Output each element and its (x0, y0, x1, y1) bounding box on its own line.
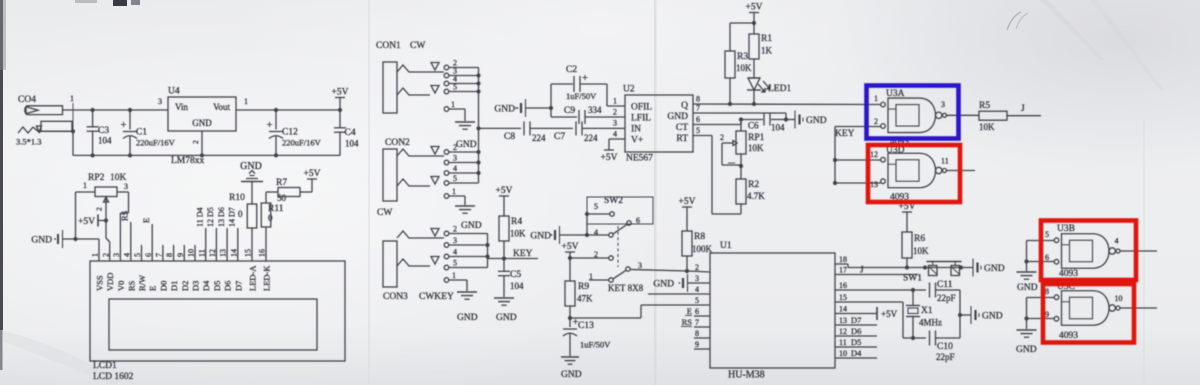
CON1 tip contact (397, 65, 444, 72)
wire U4 Vout to +5V rail (236, 109, 340, 111)
svg-text:3.5*1.3: 3.5*1.3 (16, 137, 42, 147)
svg-text:R5: R5 (979, 101, 990, 111)
led LED1 (748, 77, 760, 79)
wire reset node to U1 pin5 (570, 317, 641, 319)
svg-text:Vin: Vin (175, 102, 188, 112)
power +5V R1 R3 (749, 12, 759, 14)
svg-text:4093: 4093 (1059, 269, 1078, 279)
svg-text:4: 4 (453, 248, 457, 257)
svg-text:14 D7: 14 D7 (228, 207, 237, 227)
lcd module LCD1 LCD 1602 box (90, 261, 345, 361)
ground SW1 (972, 259, 974, 277)
svg-text:1: 1 (451, 100, 455, 109)
wire U3A output to R5 (947, 114, 980, 116)
svg-text:1: 1 (452, 187, 456, 196)
svg-text:1: 1 (452, 271, 456, 280)
power +5V SW2/R9 (565, 251, 575, 253)
svg-text:GND: GND (31, 236, 52, 246)
svg-text:10K: 10K (510, 229, 526, 239)
wire ground rail bottom (73, 154, 340, 156)
svg-text:224: 224 (532, 133, 546, 143)
svg-text:104: 104 (510, 281, 524, 291)
wire R7 to R11 (266, 191, 278, 193)
svg-text:2: 2 (613, 108, 617, 117)
svg-text:2: 2 (720, 133, 724, 142)
svg-text:47K: 47K (577, 294, 593, 304)
svg-text:KEY: KEY (835, 129, 855, 139)
svg-text:6: 6 (144, 253, 153, 257)
nand gate U3C body (1062, 291, 1110, 326)
wire CON2 pin1 to ground (449, 195, 465, 197)
svg-text:13: 13 (870, 180, 878, 189)
nand gate U3D body (888, 153, 936, 188)
capacitor C6 104 (741, 119, 763, 121)
wire SW2 pin2 to +5V (570, 257, 609, 259)
power +5V main (339, 98, 341, 111)
svg-text:1K: 1K (761, 46, 773, 56)
svg-text:GND: GND (457, 313, 478, 323)
capacitor C5 104 (503, 259, 505, 272)
svg-text:LED1: LED1 (768, 84, 791, 94)
svg-text:3: 3 (124, 182, 128, 191)
wire U2 CT pin6 to C6 (693, 124, 741, 126)
wire R11 to LED-K pin16 (265, 227, 267, 261)
wire R6 to SW1 net (906, 258, 908, 268)
svg-text:R2: R2 (748, 180, 759, 190)
svg-text:C8: C8 (504, 132, 515, 142)
svg-text:SW2: SW2 (604, 196, 623, 206)
nand gate U3B output bubble (1109, 248, 1115, 254)
svg-text:V+: V+ (631, 136, 643, 146)
svg-text:R6: R6 (914, 234, 925, 244)
svg-text:4093: 4093 (1059, 331, 1078, 341)
svg-text:CW: CW (377, 208, 392, 218)
svg-text:X1: X1 (921, 306, 933, 316)
nand gate U3A body (888, 98, 936, 133)
wire CO4 sleeve to ground rail (40, 130, 73, 132)
svg-text:C1: C1 (136, 128, 147, 138)
resistor R8 100K (682, 231, 692, 256)
svg-text:HU-M38: HU-M38 (728, 370, 765, 381)
svg-text:C13: C13 (578, 321, 594, 331)
wire R10 to LED-A pin15 (251, 228, 253, 261)
svg-text:C3: C3 (98, 126, 109, 136)
svg-text:4.7K: 4.7K (747, 191, 765, 201)
svg-text:C9: C9 (564, 106, 575, 116)
wire C2 to U2 pin1 (606, 84, 608, 106)
ground CON3 (457, 291, 477, 293)
svg-text:2: 2 (101, 253, 110, 257)
power +5V R6 (902, 211, 912, 213)
svg-text:RP2: RP2 (88, 173, 105, 183)
capacitor C4 104 (338, 108, 342, 112)
highlight red box around U3B (1041, 221, 1136, 281)
svg-text:RP1: RP1 (748, 133, 765, 143)
capacitor C11 22pF (929, 283, 931, 298)
wire CON1-CON2 shared bus (478, 68, 480, 184)
wire RP2 pin3 to LCD V0 (117, 191, 129, 193)
capacitor C13 1uF/50V (569, 318, 571, 327)
paper wrinkle shadows top right (1040, 0, 1105, 60)
svg-text:U4: U4 (168, 87, 180, 97)
svg-text:13 D6: 13 D6 (217, 207, 226, 227)
svg-text:C11: C11 (937, 280, 953, 290)
svg-text:8: 8 (695, 329, 699, 338)
CON1 ring contact (397, 88, 430, 95)
svg-text:GND: GND (1016, 345, 1037, 355)
svg-text:RT: RT (676, 134, 688, 144)
svg-text:VSS: VSS (95, 275, 105, 291)
svg-text:D1: D1 (169, 281, 179, 291)
wire R8 to U1 pin2 net (686, 256, 688, 271)
svg-text:D6: D6 (223, 281, 233, 291)
svg-text:10K: 10K (913, 246, 929, 256)
paper crease vertical left of U2 (654, 0, 657, 385)
capacitor C1 220uF/16V (128, 108, 132, 112)
svg-text:GND: GND (984, 264, 1005, 274)
highlight blue box around U3A (867, 86, 959, 139)
svg-text:13: 13 (219, 249, 228, 257)
svg-text:GND: GND (461, 221, 482, 231)
svg-text:3: 3 (638, 261, 642, 270)
wire GND to LCD VSS pin1 (63, 238, 100, 240)
highlight red box around U3C (1043, 284, 1134, 343)
svg-text:10: 10 (839, 349, 847, 358)
svg-text:V0: V0 (116, 281, 126, 291)
svg-text:6: 6 (695, 307, 699, 316)
svg-text:7: 7 (155, 253, 164, 257)
svg-text:4: 4 (453, 164, 457, 173)
svg-text:9: 9 (176, 253, 185, 257)
svg-text:C10: C10 (937, 342, 953, 352)
svg-text:11: 11 (197, 249, 206, 257)
wire SW2 pins 4,5 to GND (587, 213, 610, 215)
svg-text:OFIL: OFIL (631, 103, 652, 113)
resistor R3 10K (730, 22, 754, 24)
CON3 ring contact (397, 259, 430, 266)
svg-text:16: 16 (258, 249, 267, 257)
wire RP1 to R2 (740, 154, 742, 179)
svg-text:R7: R7 (276, 178, 287, 188)
scan artifact: faint pencil marks top right (1007, 12, 1021, 30)
svg-text:+5V: +5V (881, 309, 898, 319)
svg-text:12 D5: 12 D5 (206, 207, 215, 227)
svg-text:C4: C4 (345, 128, 356, 138)
nand gate U3B input pin 2 circle (1054, 259, 1059, 264)
svg-text:22pF: 22pF (936, 352, 955, 362)
resistor R9 47K (565, 281, 575, 306)
svg-text:1: 1 (70, 94, 74, 103)
wire U3C output (1120, 307, 1157, 309)
svg-text:+5V: +5V (78, 217, 95, 227)
svg-text:5: 5 (453, 259, 457, 268)
capacitor C12 220uF/16V (274, 108, 278, 112)
wire top rail +V (93, 109, 168, 111)
nand gate U3A input pin 1 circle (881, 102, 886, 107)
svg-text:U2: U2 (623, 85, 635, 95)
wire U3B output (1120, 250, 1157, 252)
svg-text:5: 5 (1045, 230, 1049, 239)
svg-text:1: 1 (83, 181, 87, 190)
svg-text:+5V: +5V (304, 169, 321, 179)
svg-text:R9: R9 (578, 282, 589, 292)
svg-text:GND: GND (530, 232, 551, 242)
svg-text:D4: D4 (201, 280, 211, 291)
svg-text:3: 3 (613, 119, 617, 128)
svg-text:3: 3 (453, 154, 457, 163)
svg-text:NE567: NE567 (626, 154, 653, 164)
svg-text:+5V: +5V (332, 88, 349, 98)
svg-text:CON2: CON2 (385, 138, 410, 148)
svg-text:GND: GND (192, 118, 212, 128)
svg-text:12: 12 (208, 249, 217, 257)
lcd LCD1 pin stubs 4-14 (130, 222, 132, 261)
svg-text:GND: GND (494, 105, 515, 115)
svg-text:220uF/16V: 220uF/16V (136, 138, 176, 148)
svg-text:GND: GND (240, 161, 262, 172)
wire SW2 pin3 to U1 pin2 (630, 270, 688, 272)
svg-text:LCD 1602: LCD 1602 (93, 372, 134, 382)
node KEY (503, 241, 505, 259)
svg-text:RS: RS (126, 280, 136, 291)
svg-text:104: 104 (771, 123, 785, 133)
ground U3B (1017, 271, 1037, 273)
svg-text:CO4: CO4 (18, 95, 36, 105)
svg-text:5: 5 (695, 296, 699, 305)
svg-text:E: E (687, 306, 692, 316)
resistor R6 10K (902, 232, 912, 258)
node R9/C13 (569, 306, 571, 318)
ground C13 (561, 356, 579, 358)
nand gate U3D output bubble (936, 167, 942, 173)
svg-text:KEY: KEY (513, 249, 533, 259)
svg-text:104: 104 (345, 139, 359, 149)
SW2 gang dashed link (617, 226, 619, 267)
svg-text:IN: IN (631, 125, 641, 135)
wire CON3 pin1 to ground (449, 279, 467, 281)
nand gate U3D input pin 1 circle (881, 157, 886, 162)
svg-text:+5V: +5V (601, 153, 618, 163)
nand gate U3B body (1062, 234, 1110, 269)
svg-text:+5V: +5V (562, 242, 579, 252)
svg-text:5: 5 (594, 202, 598, 211)
capacitor C10 22pF (929, 331, 931, 346)
wire RP2 pin1 to GND (76, 191, 96, 193)
capacitor C8 224 (479, 127, 522, 129)
nand gate U3A output bubble (936, 112, 942, 118)
switch SW2 enclosure (587, 197, 653, 224)
svg-text:8: 8 (1045, 287, 1049, 296)
svg-text:U3B: U3B (1057, 224, 1075, 234)
svg-text:R8: R8 (694, 232, 705, 242)
svg-text:2: 2 (695, 263, 699, 272)
paper wrinkle bottom left (0, 330, 120, 385)
svg-text:0: 0 (238, 209, 243, 219)
wire U3B inputs to ground (1027, 240, 1055, 242)
svg-text:11 D4: 11 D4 (196, 208, 205, 227)
wire KEY to U3D pin13 (833, 181, 837, 185)
svg-text:GND: GND (496, 313, 517, 323)
svg-text:GND: GND (456, 140, 477, 150)
svg-text:5: 5 (453, 83, 457, 92)
svg-text:C7: C7 (554, 132, 565, 142)
scan artifact: cropped text at top edge (113, 0, 127, 6)
svg-text:C6: C6 (748, 121, 759, 131)
resistor R1 1K (753, 23, 755, 34)
wire SW2 pin1 stub (589, 279, 609, 281)
svg-text:RS: RS (682, 317, 693, 327)
scan artifact: dark left edge strip (0, 0, 3, 330)
svg-text:R3: R3 (737, 52, 748, 62)
svg-text:D4: D4 (851, 348, 862, 358)
svg-text:RS: RS (120, 210, 130, 221)
CON3 tip contact (397, 231, 444, 238)
svg-text:D5: D5 (212, 281, 222, 291)
svg-text:D3: D3 (191, 281, 201, 291)
svg-text:17: 17 (839, 266, 847, 275)
svg-text:11: 11 (941, 157, 949, 166)
svg-text:2: 2 (453, 225, 457, 234)
svg-text:GND: GND (982, 312, 1003, 322)
svg-text:GND: GND (1017, 283, 1038, 293)
svg-text:R10: R10 (229, 193, 245, 203)
svg-text:1: 1 (613, 97, 617, 106)
svg-text:J: J (1021, 104, 1025, 114)
svg-text:10K: 10K (748, 143, 764, 153)
svg-text:8: 8 (696, 95, 700, 104)
svg-text:CW: CW (410, 41, 425, 51)
ground C6 net (786, 119, 795, 121)
svg-text:CWKEY: CWKEY (419, 292, 454, 302)
ground crystal (970, 306, 972, 324)
svg-text:D7: D7 (851, 315, 861, 325)
svg-text:D2: D2 (180, 281, 190, 291)
SW2 contacts (610, 212, 614, 216)
nand gate U3B input pin 1 circle (1054, 238, 1059, 243)
svg-text:11: 11 (839, 338, 847, 347)
wire CON3 bus to KEY node (487, 234, 489, 268)
potentiometer RP1 10K (740, 120, 742, 132)
svg-text:LCD1: LCD1 (93, 361, 117, 371)
svg-text:2: 2 (874, 117, 878, 126)
svg-text:3: 3 (112, 253, 121, 257)
svg-text:8: 8 (165, 253, 174, 257)
svg-text:18: 18 (839, 255, 847, 264)
svg-text:KET 8X8: KET 8X8 (608, 283, 644, 293)
svg-text:4: 4 (122, 253, 131, 257)
svg-text:VDD: VDD (105, 273, 115, 291)
resistor R4 10K (499, 216, 509, 241)
svg-text:C5: C5 (510, 270, 521, 280)
ground U3C (1017, 329, 1037, 331)
svg-text:3: 3 (158, 97, 162, 106)
svg-text:3: 3 (453, 236, 457, 245)
power +5V R8 (682, 206, 692, 208)
ground C5 (494, 297, 514, 299)
wire U3D output (947, 170, 976, 172)
wire U3C inputs to ground (1027, 297, 1055, 299)
svg-text:E: E (141, 218, 151, 223)
svg-text:6: 6 (696, 115, 700, 124)
svg-text:9: 9 (1045, 310, 1049, 319)
svg-text:+5V: +5V (746, 3, 763, 13)
svg-text:GND: GND (561, 370, 582, 380)
wire CO4 tip to rail (63, 109, 93, 111)
svg-text:Q: Q (681, 101, 688, 111)
svg-text:Vout: Vout (213, 102, 230, 112)
CON2 pin circles and wires (444, 150, 449, 155)
nand gate U3C input pin 2 circle (1054, 316, 1059, 321)
highlight red box around U3D (868, 145, 960, 202)
svg-text:10K: 10K (979, 122, 995, 132)
svg-text:7: 7 (695, 318, 699, 327)
svg-text:GND: GND (653, 280, 674, 290)
wire U2 RT pin5 to R2 bottom (693, 135, 712, 137)
svg-text:SW1: SW1 (903, 274, 922, 284)
svg-text:13: 13 (839, 316, 847, 325)
SW2 lever 4-6 (613, 225, 627, 234)
svg-text:LFIL: LFIL (631, 114, 651, 124)
capacitor C9 334 (551, 116, 577, 118)
svg-text:CON3: CON3 (383, 292, 408, 302)
wire R5 to J (1007, 115, 1041, 117)
nand gate U3C output bubble (1109, 305, 1115, 311)
svg-text:334: 334 (588, 105, 602, 115)
svg-text:2: 2 (453, 143, 457, 152)
svg-text:10: 10 (1115, 294, 1123, 303)
svg-text:GND: GND (667, 112, 688, 122)
CON3 pin circles and wires (444, 231, 449, 236)
svg-text:1: 1 (244, 97, 248, 106)
svg-text:LED-A: LED-A (248, 265, 258, 291)
svg-text:CT: CT (676, 123, 688, 133)
svg-text:5: 5 (453, 174, 457, 183)
power +5V R7 (300, 191, 312, 193)
svg-text:CON1: CON1 (376, 41, 401, 51)
wire +5V to LCD VDD pin2 (105, 221, 107, 239)
svg-text:4MHz: 4MHz (919, 318, 942, 328)
capacitor C7 224 (575, 121, 577, 135)
svg-text:D6: D6 (851, 326, 861, 336)
svg-text:1uF/50V: 1uF/50V (580, 340, 611, 350)
SW2 lever 1-3 (613, 270, 626, 279)
svg-text:4: 4 (695, 285, 699, 294)
svg-text:12: 12 (839, 327, 847, 336)
CON2 tip contact (397, 149, 444, 156)
svg-text:4: 4 (613, 130, 617, 139)
resistor R2 4.7K (736, 179, 746, 204)
nand gate U3A input pin 2 circle (881, 124, 886, 129)
nand gate U3C schmitt symbol (1070, 297, 1093, 319)
svg-text:1uF/50V: 1uF/50V (566, 91, 597, 101)
svg-text:10: 10 (187, 249, 196, 257)
svg-text:3: 3 (941, 100, 945, 109)
svg-text:7: 7 (696, 104, 700, 113)
svg-text:2: 2 (95, 207, 104, 211)
svg-text:12: 12 (870, 150, 878, 159)
power +5V U2 V+ (609, 138, 625, 140)
svg-text:U1: U1 (720, 241, 732, 251)
nand gate U3D input pin 2 circle (881, 179, 886, 184)
svg-text:6: 6 (636, 216, 640, 225)
nand gate U3C input pin 1 circle (1054, 295, 1059, 300)
svg-text:5: 5 (133, 253, 142, 257)
crystal X1 4MHz (911, 288, 915, 292)
svg-text:9: 9 (695, 340, 699, 349)
svg-text:GND: GND (806, 116, 827, 126)
svg-text:14: 14 (229, 249, 238, 257)
svg-text:3: 3 (695, 274, 699, 283)
